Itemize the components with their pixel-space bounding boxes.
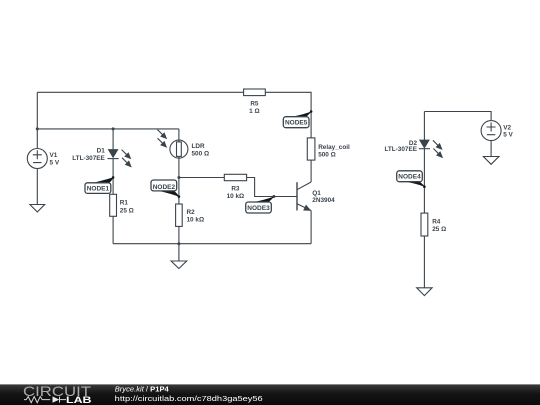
label R1 value bbox=[120, 200, 134, 215]
svg-text:NODE1: NODE1 bbox=[87, 186, 110, 193]
wire junction to R3 bbox=[179, 177, 224, 179]
svg-text:R1: R1 bbox=[120, 200, 129, 207]
svg-text:Bryce.kit / P1P4: Bryce.kit / P1P4 bbox=[115, 385, 170, 394]
label R5 value bbox=[249, 101, 259, 115]
svg-text:D1: D1 bbox=[97, 148, 106, 155]
footer bar bbox=[0, 384, 540, 405]
svg-text:NODE3: NODE3 bbox=[247, 205, 270, 212]
node NODE2 flag bbox=[151, 180, 180, 198]
transistor Q1 bbox=[297, 182, 311, 211]
wire bottom rail bbox=[113, 243, 311, 245]
svg-text:1 Ω: 1 Ω bbox=[249, 108, 259, 115]
resistor R2 bbox=[176, 204, 183, 226]
svg-text:10 kΩ: 10 kΩ bbox=[227, 193, 245, 200]
label R2 value bbox=[187, 209, 205, 224]
svg-text:500 Ω: 500 Ω bbox=[192, 151, 210, 158]
label V2 value bbox=[503, 124, 513, 138]
svg-text:5 V: 5 V bbox=[50, 159, 60, 166]
svg-text:5 V: 5 V bbox=[503, 131, 513, 138]
wire Q1 emitter to bottom rail bbox=[310, 211, 312, 244]
node NODE4 flag bbox=[397, 171, 426, 188]
wire LDR to junction bbox=[178, 158, 180, 177]
node junction D1/mid bbox=[112, 127, 115, 130]
node junction LDR/R2/R3 bbox=[177, 176, 180, 179]
svg-text:10 kΩ: 10 kΩ bbox=[187, 216, 205, 223]
wire LDR top bbox=[178, 129, 180, 140]
svg-text:NODE2: NODE2 bbox=[153, 184, 176, 191]
svg-text:25 Ω: 25 Ω bbox=[432, 226, 446, 233]
resistor R3 bbox=[224, 174, 246, 180]
svg-text:LAB: LAB bbox=[66, 395, 92, 405]
svg-text:LTL-307EE: LTL-307EE bbox=[384, 146, 417, 153]
wire V2 top bbox=[424, 112, 491, 121]
voltage source V1 bbox=[27, 149, 47, 169]
label R4 value bbox=[432, 218, 446, 233]
wire D1 to R1 bbox=[112, 159, 114, 195]
node NODE5 flag bbox=[283, 110, 312, 128]
label D1 value bbox=[72, 148, 105, 163]
node junction R2/bottom rail bbox=[177, 242, 180, 245]
node NODE3 flag bbox=[246, 196, 274, 213]
label LDR value bbox=[192, 143, 210, 158]
wire R4 to ground bbox=[423, 236, 425, 288]
wire top rail right segment bbox=[265, 92, 311, 138]
ground below R4 bbox=[417, 288, 432, 296]
svg-text:25 Ω: 25 Ω bbox=[120, 207, 134, 214]
footer title text bbox=[115, 385, 263, 403]
wire D2 top bbox=[423, 112, 425, 141]
resistor R4 bbox=[421, 213, 428, 236]
svg-text:http://circuitlab.com/c78dh3ga: http://circuitlab.com/c78dh3ga5ey56 bbox=[115, 394, 263, 403]
svg-text:NODE4: NODE4 bbox=[398, 174, 421, 181]
node junction V1/mid bbox=[36, 127, 39, 130]
wire mid rail bbox=[37, 128, 179, 130]
wire R2 top bbox=[178, 178, 180, 205]
svg-text:R2: R2 bbox=[187, 209, 196, 216]
label V1 value bbox=[50, 152, 60, 166]
wire V1 top vertical bbox=[36, 92, 38, 148]
ground below V2 bbox=[483, 141, 499, 165]
voltage source V2 bbox=[481, 121, 501, 141]
wire D1 branch upper bbox=[112, 129, 114, 150]
label Relay_coil value bbox=[318, 144, 350, 159]
svg-text:LTL-307EE: LTL-307EE bbox=[72, 155, 105, 162]
wire top rail left segment bbox=[37, 91, 243, 93]
node NODE3 junction dot bbox=[272, 195, 275, 198]
wire R3 to Q1 base bbox=[247, 178, 297, 197]
svg-text:2N3904: 2N3904 bbox=[312, 197, 335, 204]
svg-text:V1: V1 bbox=[50, 152, 58, 159]
LED D1 bbox=[108, 150, 131, 167]
svg-text:NODE5: NODE5 bbox=[285, 120, 308, 127]
resistor R5 bbox=[244, 89, 266, 96]
wire R1 to bottom rail bbox=[112, 216, 114, 243]
node NODE1 flag bbox=[85, 176, 114, 193]
svg-text:Relay_coil: Relay_coil bbox=[318, 144, 350, 151]
label Q1 value bbox=[312, 190, 335, 204]
wire relay to Q1 collector bbox=[310, 160, 312, 182]
svg-text:R4: R4 bbox=[432, 218, 441, 225]
wire D2 to R4 bbox=[423, 149, 425, 213]
svg-text:R3: R3 bbox=[231, 186, 240, 193]
logo CIRCUIT LAB bbox=[23, 383, 92, 405]
svg-text:LDR: LDR bbox=[192, 143, 206, 150]
label R3 value bbox=[227, 186, 245, 201]
photoresistor LDR bbox=[158, 130, 188, 159]
ground below V1 bbox=[30, 169, 45, 213]
ground below R2 bbox=[171, 244, 187, 269]
wire R2 to bottom rail bbox=[178, 226, 180, 243]
LED D2 bbox=[419, 140, 442, 157]
resistor R1 bbox=[110, 194, 117, 216]
svg-text:500 Ω: 500 Ω bbox=[318, 152, 336, 159]
svg-text:R5: R5 bbox=[250, 101, 259, 108]
label D2 value bbox=[384, 140, 417, 153]
relay coil Relay_coil bbox=[307, 138, 315, 160]
